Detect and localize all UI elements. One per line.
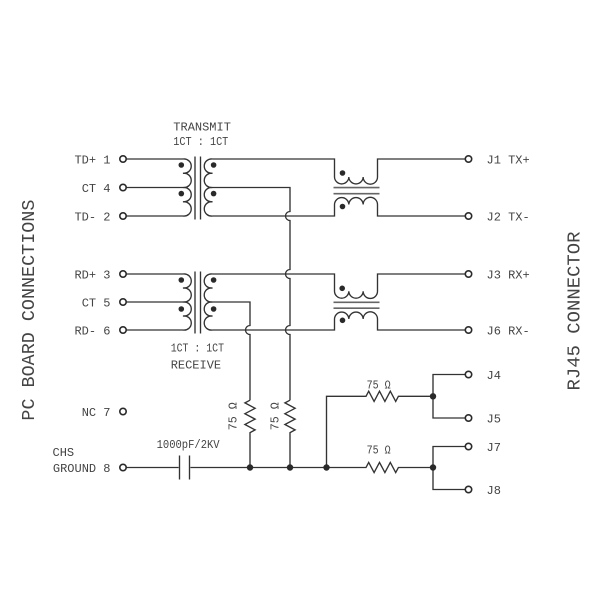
svg-text:1CT : 1CT: 1CT : 1CT	[173, 135, 228, 149]
svg-text:PC BOARD CONNECTIONS: PC BOARD CONNECTIONS	[20, 200, 40, 421]
svg-text:75 Ω: 75 Ω	[367, 378, 391, 392]
svg-text:J5: J5	[487, 412, 501, 426]
svg-text:J2 TX-: J2 TX-	[487, 210, 530, 224]
svg-text:1000pF/2KV: 1000pF/2KV	[157, 438, 221, 452]
svg-text:NC 7: NC 7	[82, 406, 111, 420]
svg-text:75 Ω: 75 Ω	[227, 402, 241, 430]
svg-text:J3 RX+: J3 RX+	[487, 268, 530, 282]
svg-text:RJ45 CONNECTOR: RJ45 CONNECTOR	[566, 231, 586, 390]
svg-text:TRANSMIT: TRANSMIT	[173, 120, 231, 134]
svg-text:TD+ 1: TD+ 1	[74, 153, 110, 167]
svg-text:J1 TX+: J1 TX+	[487, 153, 530, 167]
svg-text:J6 RX-: J6 RX-	[487, 324, 530, 338]
svg-text:CT 4: CT 4	[82, 182, 111, 196]
svg-text:J7: J7	[487, 441, 501, 455]
svg-text:CHS: CHS	[53, 446, 75, 460]
svg-text:RECEIVE: RECEIVE	[171, 358, 221, 372]
svg-text:TD- 2: TD- 2	[74, 210, 110, 224]
svg-text:GROUND 8: GROUND 8	[53, 462, 111, 476]
svg-text:RD- 6: RD- 6	[74, 324, 110, 338]
svg-text:CT 5: CT 5	[82, 296, 111, 310]
svg-text:1CT : 1CT: 1CT : 1CT	[171, 342, 224, 356]
svg-text:RD+ 3: RD+ 3	[74, 268, 110, 282]
svg-text:75 Ω: 75 Ω	[269, 402, 283, 430]
svg-text:J8: J8	[487, 484, 501, 498]
svg-text:J4: J4	[487, 369, 501, 383]
svg-text:75 Ω: 75 Ω	[367, 444, 391, 458]
